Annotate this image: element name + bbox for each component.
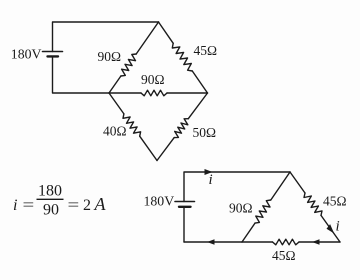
equation fraction bar: [37, 198, 64, 200]
arrow: current i on top wire of bottom circuit (points right): [205, 169, 213, 175]
wire: R4 to bottom apex: [140, 136, 157, 160]
battery V1 long plate (+): [43, 51, 63, 53]
wire: R6 to left node (bottom circuit): [242, 223, 255, 242]
wire: R2 to right node: [192, 71, 207, 93]
wire: left node to R4: [109, 93, 124, 114]
svg-text:50Ω: 50Ω: [193, 125, 217, 140]
wire: R8 to bottom-right corner: [299, 241, 340, 243]
arrow: return current on bottom wire, right of R8 (points left): [312, 239, 320, 245]
wire: battery V2 negative down to bottom-left corner: [183, 207, 185, 242]
svg-text:180V: 180V: [144, 194, 175, 209]
wire: apex to R6: [271, 172, 290, 200]
arrow: return current on bottom wire, left of R8 (points left): [207, 239, 215, 245]
svg-text:2: 2: [83, 197, 91, 214]
resistor R4 40ohm zigzag (left node to bottom apex): [123, 114, 141, 136]
svg-text:45Ω: 45Ω: [194, 43, 218, 58]
wire: R3 to right node: [167, 92, 208, 94]
wire: battery V1 negative down to bottom-left corner to left node: [53, 56, 110, 93]
wire: apex to R2: [159, 22, 174, 43]
wire: left node to R8 (bottom wire): [242, 241, 273, 243]
svg-text:180: 180: [38, 183, 62, 200]
battery V1 short plate (-): [48, 55, 59, 57]
svg-text:45Ω: 45Ω: [323, 194, 347, 209]
svg-text:=: =: [68, 196, 80, 214]
svg-text:i: i: [13, 197, 17, 214]
svg-text:90: 90: [43, 202, 59, 219]
wire: R5 to bottom apex: [157, 138, 174, 161]
svg-text:45Ω: 45Ω: [272, 248, 296, 263]
battery V2 long plate (+): [175, 201, 195, 203]
resistor R6 90ohm zigzag (apex to left node, bottom circuit): [255, 200, 271, 223]
wire: battery V2 positive up and right to triangle apex: [184, 172, 290, 202]
wire: bottom-left corner to triangle left node: [184, 241, 242, 243]
svg-text:90Ω: 90Ω: [229, 201, 253, 216]
wire: apex to R7: [290, 172, 305, 193]
resistor R8 45ohm zigzag (bottom wire): [273, 239, 300, 245]
wire: R1 to left node: [109, 76, 121, 93]
wire: left node to R3: [109, 92, 141, 94]
svg-text:i: i: [336, 219, 340, 235]
wire: R7 to bottom-right corner: [321, 215, 340, 242]
svg-text:40Ω: 40Ω: [103, 124, 127, 139]
resistor R1 90ohm zigzag (apex to left node): [121, 54, 136, 76]
svg-text:180V: 180V: [11, 47, 42, 62]
resistor R7 45ohm zigzag (apex to bottom-right corner): [304, 193, 322, 215]
wire: right node to R5: [188, 93, 207, 119]
svg-text:=: =: [23, 196, 35, 214]
svg-text:A: A: [94, 194, 107, 214]
resistor R3 90ohm zigzag (middle horizontal): [141, 90, 167, 96]
arrow: current i on right diagonal of bottom circuit (points down-right toward corner): [327, 224, 335, 233]
wire: apex to R1: [136, 22, 158, 54]
wire: battery V1 positive to top-left corner to bridge apex: [53, 22, 159, 52]
resistor R5 50ohm zigzag (right node to bottom apex): [174, 119, 188, 138]
svg-text:i: i: [209, 172, 213, 188]
battery V2 short plate (-): [179, 206, 191, 208]
svg-text:90Ω: 90Ω: [141, 72, 165, 87]
resistor R2 45ohm zigzag (apex to right node): [172, 43, 192, 71]
svg-text:90Ω: 90Ω: [98, 49, 122, 64]
